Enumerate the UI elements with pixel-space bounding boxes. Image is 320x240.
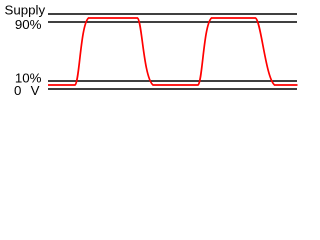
90% reference line — [48, 21, 297, 23]
10% reference line — [48, 80, 297, 82]
svg-text:0: 0 — [14, 83, 21, 98]
red signal waveform — [48, 18, 298, 85]
svg-text:90%: 90% — [15, 17, 42, 32]
supply reference line — [48, 13, 297, 15]
0 V reference line — [48, 88, 297, 90]
svg-text:Supply: Supply — [5, 3, 46, 18]
svg-text:V: V — [31, 83, 40, 98]
